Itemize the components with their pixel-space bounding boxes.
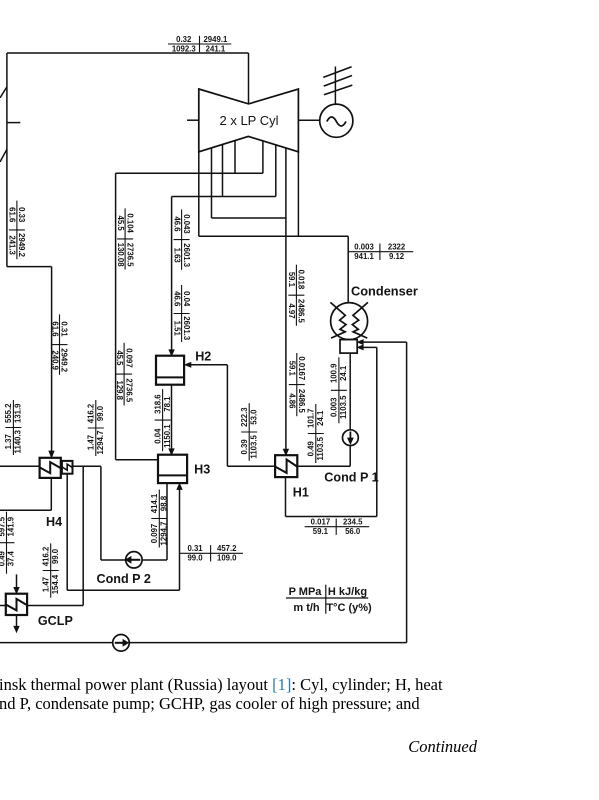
svg-text:2601.3: 2601.3 bbox=[182, 243, 191, 268]
wire H3 steam feed vertical bbox=[115, 173, 117, 459]
wire main steam top line bbox=[7, 52, 249, 54]
wire nozzle b bbox=[222, 144, 224, 196]
wire GCLP branch drop bbox=[82, 466, 84, 605]
condenser internal zigzag right bbox=[352, 302, 368, 338]
wire H4 steam feed bbox=[51, 267, 53, 452]
wire condensate riser bbox=[226, 365, 228, 467]
wire H4 outlet left bbox=[0, 465, 40, 467]
wire makeup riser to condenser bbox=[406, 342, 408, 642]
label 0.04/318.6 after H2 bbox=[153, 389, 171, 451]
svg-text:45.5: 45.5 bbox=[116, 216, 125, 232]
label 0.043/2601.3 H2 feed bbox=[172, 209, 190, 269]
wire H1 to riser bbox=[227, 465, 275, 467]
svg-text:130.08: 130.08 bbox=[116, 243, 125, 268]
drain cooler internal symbol bbox=[62, 464, 72, 470]
svg-text:241.1: 241.1 bbox=[206, 44, 226, 53]
svg-text:129.8: 129.8 bbox=[115, 380, 124, 400]
svg-text:1294.7: 1294.7 bbox=[160, 522, 169, 546]
svg-text:1.63: 1.63 bbox=[172, 248, 181, 264]
generator 3-phase slash 3 bbox=[324, 85, 352, 95]
heater H1 box bbox=[275, 455, 297, 477]
arrow gas out of GCLP bbox=[14, 626, 19, 632]
svg-text:2949.1: 2949.1 bbox=[203, 35, 228, 44]
svg-text:1150.1: 1150.1 bbox=[163, 424, 172, 448]
svg-text:2736.5: 2736.5 bbox=[125, 243, 134, 268]
wire hotwell outlet to Cond P1 bbox=[349, 353, 351, 430]
svg-text:597.5: 597.5 bbox=[0, 516, 6, 536]
wire GCLP right connection bbox=[27, 605, 83, 607]
svg-text:24.1: 24.1 bbox=[316, 410, 325, 426]
svg-text:318.6: 318.6 bbox=[153, 394, 162, 414]
label 0.31/2949.2 H4 feed bbox=[50, 314, 68, 374]
svg-text:4.86: 4.86 bbox=[288, 393, 297, 409]
svg-text:H kJ/kg: H kJ/kg bbox=[328, 586, 367, 598]
svg-text:2736.5: 2736.5 bbox=[124, 378, 133, 403]
wire nozzle c bbox=[234, 141, 236, 174]
arrow into H3 top bbox=[169, 449, 174, 455]
cropped turbine edge diagonal lower bbox=[0, 149, 7, 162]
svg-text:555.2: 555.2 bbox=[4, 403, 13, 423]
svg-text:2949.2: 2949.2 bbox=[60, 348, 69, 373]
svg-text:insk thermal power plant (Russ: insk thermal power plant (Russia) layout… bbox=[0, 675, 443, 694]
svg-text:H4: H4 bbox=[46, 515, 62, 529]
label 0.097/414.1 after H3 bbox=[150, 490, 168, 548]
wire H4 drain to left bbox=[0, 509, 51, 511]
svg-text:131.9: 131.9 bbox=[14, 403, 23, 423]
svg-text:0.017: 0.017 bbox=[311, 518, 331, 527]
cropped shaft stub far left bbox=[7, 122, 20, 124]
svg-text:61.6: 61.6 bbox=[50, 321, 59, 337]
wire to small drain cooler box bbox=[73, 465, 101, 467]
label 0.49/597.5 H4 bottom drain bbox=[0, 512, 16, 574]
svg-text:0.39: 0.39 bbox=[240, 439, 249, 455]
wire exhaust header to condenser bbox=[199, 235, 348, 237]
legend units bbox=[286, 597, 368, 599]
svg-text:2486.5: 2486.5 bbox=[297, 389, 306, 414]
svg-text:0.04: 0.04 bbox=[182, 291, 191, 307]
svg-text:1294.7: 1294.7 bbox=[96, 431, 105, 455]
svg-text:m t/h: m t/h bbox=[293, 602, 320, 614]
pump bottom transfer bbox=[113, 635, 130, 652]
wire condenser feed drop bbox=[347, 236, 349, 303]
wire into H2 right side bbox=[191, 364, 228, 366]
svg-text:1.47: 1.47 bbox=[41, 577, 50, 592]
pump Cond P 2 bbox=[126, 552, 142, 568]
svg-text:99.0: 99.0 bbox=[51, 548, 60, 564]
generator circle bbox=[320, 104, 353, 137]
wire H2 extraction header bbox=[172, 196, 276, 198]
label 0.097/2736.5 H3 feed lower bbox=[115, 343, 133, 406]
svg-text:0.097: 0.097 bbox=[150, 524, 159, 544]
wire H3 extraction header bbox=[116, 172, 263, 174]
svg-text:61.6: 61.6 bbox=[8, 207, 17, 223]
generator 3-phase slash 1 bbox=[323, 67, 351, 78]
arrow into H1 bbox=[283, 449, 288, 455]
heater H4 internal symbol bbox=[40, 462, 61, 473]
svg-text:1092.3: 1092.3 bbox=[172, 44, 197, 53]
label 1.47/416.2 GCLP line bbox=[41, 543, 59, 597]
H4 drain cooler small box bbox=[62, 461, 73, 474]
wire GCLP gas outlet bbox=[16, 615, 18, 627]
wire header elbow to H4 feed bbox=[7, 266, 52, 268]
label 0.0167/2486.5 H1 feed lower bbox=[288, 353, 306, 416]
heater H3 box bbox=[158, 455, 187, 483]
svg-text:941.1: 941.1 bbox=[354, 252, 374, 261]
arrow into H2 bbox=[169, 350, 174, 356]
svg-text:0.097: 0.097 bbox=[124, 348, 133, 368]
svg-text:H2: H2 bbox=[195, 350, 211, 364]
svg-text:H3: H3 bbox=[194, 463, 210, 477]
label 0.31/457.2 H4 drain bbox=[180, 552, 243, 554]
svg-text:0.003: 0.003 bbox=[354, 243, 374, 252]
wire drain cooler bottom drop bbox=[66, 474, 68, 591]
wire H4 bottom drain bbox=[50, 478, 52, 510]
gas cooler GCLP box bbox=[6, 594, 27, 615]
svg-text:Condenser: Condenser bbox=[351, 283, 418, 298]
condenser internal zigzag left bbox=[330, 302, 346, 338]
svg-text:241.3: 241.3 bbox=[8, 235, 17, 255]
svg-text:99.0: 99.0 bbox=[187, 554, 203, 563]
arrow into H2 right bbox=[185, 362, 191, 367]
svg-text:nd P, condensate pump; GCHP, g: nd P, condensate pump; GCHP, gas cooler … bbox=[0, 694, 420, 713]
wire H3 steam feed horizontal bbox=[116, 459, 158, 461]
wire exhaust right edge drop bbox=[297, 152, 299, 237]
wire H3 outlet down bbox=[166, 483, 168, 560]
label 1.37/555.2 after H4 bbox=[4, 400, 22, 455]
wire drain return upper into hotwell bbox=[363, 341, 407, 343]
wire H1 drain riser to condenser bbox=[376, 347, 378, 516]
wire H1 drain across bbox=[286, 516, 377, 518]
wire Cond P2 suction line bbox=[101, 559, 167, 561]
label 0.003/100.9 hotwell out bbox=[330, 357, 348, 423]
label 0.39/222.3 after H1 bbox=[240, 403, 258, 461]
label 0.018/2486.5 H1 feed bbox=[287, 265, 305, 326]
wire H1 steam feed bbox=[285, 148, 287, 450]
svg-text:0.043: 0.043 bbox=[182, 214, 191, 234]
svg-text:1.47: 1.47 bbox=[87, 435, 96, 450]
wire nozzle d bbox=[262, 141, 264, 173]
svg-text:416.2: 416.2 bbox=[87, 403, 96, 423]
label 1.47/416.2 P2 discharge bbox=[87, 400, 105, 456]
svg-text:T°C (y%): T°C (y%) bbox=[326, 602, 372, 614]
svg-text:59.1: 59.1 bbox=[287, 272, 296, 288]
wire nozzle e bbox=[275, 145, 277, 197]
turbine 2 x LP Cyl bbox=[199, 89, 299, 152]
generator sine wave bbox=[327, 117, 346, 126]
svg-text:24.1: 24.1 bbox=[339, 365, 348, 381]
svg-text:2322: 2322 bbox=[388, 243, 406, 252]
svg-text:0.04: 0.04 bbox=[153, 428, 162, 444]
heater H2 internal line bbox=[156, 376, 184, 378]
svg-text:Continued: Continued bbox=[408, 737, 477, 756]
heater H2 box bbox=[156, 356, 184, 385]
svg-text:414.1: 414.1 bbox=[150, 493, 159, 513]
label 0.33/2949.2 header bbox=[8, 201, 26, 260]
svg-text:0.31: 0.31 bbox=[60, 321, 69, 337]
svg-text:1140.3: 1140.3 bbox=[14, 429, 23, 453]
condenser circle bbox=[331, 303, 368, 340]
svg-text:Cond P 1: Cond P 1 bbox=[324, 471, 378, 485]
arrow into H3 bottom bbox=[177, 484, 182, 490]
label 0.104/2736.5 H3 feed bbox=[116, 208, 134, 269]
svg-text:59.1: 59.1 bbox=[288, 361, 297, 377]
svg-text:GCLP: GCLP bbox=[38, 614, 73, 628]
svg-text:56.0: 56.0 bbox=[345, 527, 361, 536]
svg-text:0.33: 0.33 bbox=[17, 207, 26, 223]
svg-text:2949.2: 2949.2 bbox=[17, 233, 26, 258]
wire to H1 right side bbox=[297, 465, 350, 467]
generator lead bbox=[334, 67, 336, 105]
svg-text:416.2: 416.2 bbox=[41, 546, 50, 566]
wire drain return lower into hotwell bbox=[363, 346, 377, 348]
svg-text:45.5: 45.5 bbox=[115, 350, 124, 366]
wire H2 steam feed bbox=[171, 197, 173, 351]
svg-text:H1: H1 bbox=[293, 486, 309, 500]
generator 3-phase slash 2 bbox=[324, 76, 352, 87]
wire left steam header bbox=[6, 53, 8, 267]
wire extraction header to H1 feed bbox=[212, 217, 286, 219]
svg-text:141.9: 141.9 bbox=[7, 516, 16, 536]
wire GCLP left stub bbox=[0, 605, 6, 607]
arrow into hotwell upper bbox=[357, 340, 363, 345]
wire H4 drain riser into H3 bbox=[179, 489, 181, 590]
condenser hotwell box bbox=[340, 340, 357, 354]
svg-text:0.31: 0.31 bbox=[187, 544, 203, 553]
svg-text:1.51: 1.51 bbox=[172, 321, 181, 337]
label 0.017/234.5 H1 drain bbox=[305, 526, 370, 528]
svg-text:240.9: 240.9 bbox=[50, 350, 59, 370]
heater H4 box bbox=[40, 458, 61, 478]
cropped turbine edge diagonal upper bbox=[0, 87, 7, 98]
wire exhaust left edge drop bbox=[198, 152, 200, 237]
svg-text:0.49: 0.49 bbox=[307, 441, 316, 457]
svg-text:2486.5: 2486.5 bbox=[297, 299, 306, 324]
label 0.04/2601.3 H2 feed lower bbox=[172, 285, 190, 342]
svg-text:Cond P 2: Cond P 2 bbox=[97, 572, 151, 586]
svg-text:0.018: 0.018 bbox=[297, 270, 306, 290]
svg-text:53.0: 53.0 bbox=[249, 409, 258, 425]
shaft stub at turbine left bbox=[187, 119, 199, 121]
svg-text:0.003: 0.003 bbox=[330, 397, 339, 417]
svg-text:46.6: 46.6 bbox=[172, 291, 181, 307]
svg-text:457.2: 457.2 bbox=[217, 544, 237, 553]
wire nozzle a bbox=[211, 148, 213, 218]
wire drain transfer line bbox=[67, 589, 179, 591]
heater H3 internal line bbox=[158, 474, 187, 476]
wire H2 to H3 drain bbox=[171, 385, 173, 449]
svg-text:59.1: 59.1 bbox=[313, 527, 329, 536]
GCLP internal symbol bbox=[6, 599, 27, 611]
svg-text:1103.5: 1103.5 bbox=[339, 395, 348, 419]
svg-text:109.0: 109.0 bbox=[217, 554, 237, 563]
svg-text:4.97: 4.97 bbox=[287, 303, 296, 318]
svg-text:1103.5: 1103.5 bbox=[316, 436, 325, 460]
wire GCLP gas inlet bbox=[16, 574, 18, 587]
svg-text:9.12: 9.12 bbox=[389, 252, 405, 261]
arrow gas into GCLP bbox=[14, 587, 19, 593]
arrow into hotwell lower bbox=[357, 345, 363, 350]
wire Cond P1 discharge bbox=[349, 446, 351, 467]
svg-text:154.4: 154.4 bbox=[51, 574, 60, 594]
svg-text:1103.5: 1103.5 bbox=[249, 435, 258, 459]
svg-text:0.0167: 0.0167 bbox=[297, 356, 306, 380]
wire riser to H4 line bbox=[100, 466, 102, 560]
svg-text:2 x LP Cyl: 2 x LP Cyl bbox=[219, 113, 278, 128]
wire bottom collector line bbox=[0, 642, 407, 644]
label 0.49/101.7 P1 discharge bbox=[307, 404, 325, 463]
svg-text:234.5: 234.5 bbox=[343, 518, 363, 527]
svg-text:99.0: 99.0 bbox=[96, 405, 105, 421]
svg-text:101.7: 101.7 bbox=[307, 408, 316, 428]
svg-text:0.49: 0.49 bbox=[0, 550, 6, 566]
arrow into H4 bbox=[49, 451, 54, 458]
svg-text:98.8: 98.8 bbox=[160, 495, 169, 511]
heater H1 internal symbol bbox=[275, 460, 297, 473]
pump Cond P 1 bbox=[343, 430, 359, 446]
svg-text:37.4: 37.4 bbox=[7, 550, 16, 566]
wire H1 drain down bbox=[285, 477, 287, 516]
svg-text:78.1: 78.1 bbox=[163, 396, 172, 412]
svg-text:2601.3: 2601.3 bbox=[182, 316, 191, 341]
label 0.003/2322 exhaust bbox=[348, 251, 413, 253]
svg-text:P MPa: P MPa bbox=[289, 586, 323, 598]
svg-text:100.9: 100.9 bbox=[330, 363, 339, 383]
svg-text:0.32: 0.32 bbox=[176, 35, 192, 44]
svg-text:222.3: 222.3 bbox=[240, 407, 249, 427]
label 0.32/2949.1 top bbox=[168, 43, 231, 45]
svg-text:46.6: 46.6 bbox=[172, 216, 181, 232]
svg-text:0.104: 0.104 bbox=[125, 213, 134, 233]
shaft turbine-generator bbox=[298, 119, 319, 121]
svg-text:1.37: 1.37 bbox=[4, 434, 13, 449]
